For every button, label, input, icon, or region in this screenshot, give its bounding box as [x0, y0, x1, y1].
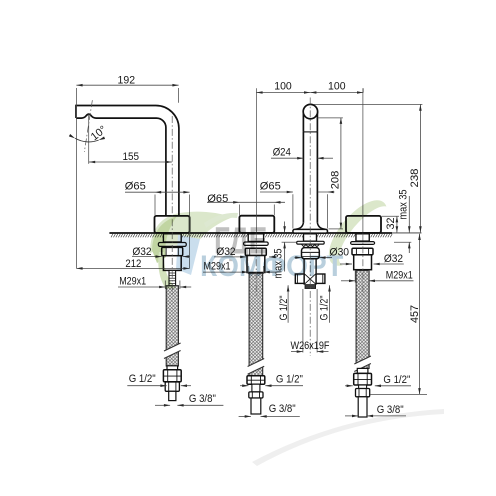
watermark top band	[204, 213, 238, 228]
svg-text:Ø65: Ø65	[207, 193, 228, 205]
dim O32 hose3	[340, 263, 352, 265]
dim 100 left	[256, 92, 310, 94]
dim G3/8 hose3	[345, 415, 358, 417]
svg-text:G 1/2": G 1/2"	[318, 295, 330, 320]
hose braid	[356, 271, 369, 369]
svg-text:Ø32: Ø32	[384, 253, 403, 265]
hose G3/8 tube	[251, 398, 261, 414]
hose washer	[158, 243, 186, 247]
svg-text:M29x1: M29x1	[119, 276, 146, 288]
hose shank	[248, 234, 263, 242]
mixer wave washer	[302, 244, 320, 246]
joystick stem	[302, 132, 304, 223]
svg-text:192: 192	[118, 75, 136, 87]
dim M29x1 hose2	[203, 271, 248, 273]
svg-text:G 1/2": G 1/2"	[129, 373, 156, 385]
svg-text:238: 238	[409, 169, 421, 188]
dim W26x19F	[302, 289, 304, 353]
mixer cross body	[303, 273, 305, 284]
svg-text:212: 212	[125, 258, 141, 270]
svg-text:W26x19F: W26x19F	[291, 340, 330, 352]
svg-text:M29x1: M29x1	[386, 270, 413, 282]
dim O32 hose2	[214, 256, 246, 258]
svg-text:Ø32: Ø32	[132, 246, 151, 258]
mixer body tube	[303, 259, 305, 274]
svg-text:208: 208	[330, 171, 342, 190]
joystick ball	[303, 104, 317, 118]
svg-text:100: 100	[328, 80, 346, 92]
hose G3/8 tube	[358, 397, 367, 417]
svg-text:100: 100	[274, 80, 292, 92]
hose mounting nut	[245, 248, 266, 255]
mixer left port	[295, 274, 304, 283]
dim O65 spout base	[125, 191, 190, 193]
mixer nut O30	[302, 248, 320, 259]
svg-text:G 1/2": G 1/2"	[278, 295, 290, 320]
dim max35 left	[284, 222, 286, 233]
right handle base	[346, 216, 381, 233]
dim O32 hose1	[132, 256, 162, 258]
hose threaded adapter	[169, 270, 176, 285]
hose shank	[163, 234, 181, 242]
hose G3/8 adapter nut	[165, 382, 179, 391]
hose G3/8 adapter nut	[249, 392, 263, 398]
watermark right swoosh	[318, 191, 397, 275]
hose G3/8 tube	[169, 391, 176, 400]
mixer washer	[297, 241, 325, 244]
dim G3/8 hose1	[155, 404, 170, 406]
dim 238	[419, 105, 421, 233]
dim 208	[340, 118, 342, 229]
spout outline	[76, 106, 179, 216]
mixer threaded end W26	[305, 285, 316, 289]
hose G1/2 nut	[354, 373, 372, 385]
hose body	[247, 256, 265, 273]
hose collar	[167, 366, 178, 370]
hose mounting nut	[352, 248, 373, 255]
hose neck	[359, 385, 367, 389]
svg-text:G 1/2": G 1/2"	[276, 373, 303, 385]
dim G1/2 hose3	[345, 385, 353, 387]
left handle base	[239, 216, 274, 233]
dim O65 left handle base	[207, 201, 285, 203]
dim 32 base height	[396, 216, 398, 232]
hose break mark	[248, 359, 265, 375]
dim G1/2 hose1	[127, 385, 166, 387]
dim O24 stem	[271, 157, 303, 159]
hose G3/8 adapter nut	[356, 389, 370, 397]
dim G1/2 hose2	[240, 385, 248, 387]
joystick flange plate	[293, 229, 328, 233]
hose braid	[249, 273, 263, 376]
dim O30 mixer nut	[295, 257, 302, 259]
dim 155	[89, 161, 172, 163]
svg-text:G 3/8": G 3/8"	[189, 393, 216, 405]
svg-text:Ø65: Ø65	[260, 180, 281, 192]
countertop hatch	[111, 234, 392, 237]
svg-text:457: 457	[409, 305, 421, 323]
dim M29x1 hose1	[118, 286, 165, 288]
dim 212	[76, 267, 189, 269]
watermark blue ribbon	[176, 235, 200, 275]
countertop line	[109, 232, 392, 234]
hose shank	[356, 234, 369, 241]
mixer right port	[316, 274, 325, 283]
hose braid	[166, 286, 178, 366]
dim max35 right	[408, 196, 410, 232]
hose body	[163, 256, 181, 271]
spout base	[155, 216, 190, 233]
dim O65 joystick flange	[260, 191, 293, 193]
watermark bottom streak	[252, 409, 444, 466]
joystick sleeve	[302, 112, 304, 132]
joystick flare foot	[295, 223, 325, 230]
dim M29x1 hose3	[341, 280, 355, 282]
svg-text:Ø24: Ø24	[273, 147, 291, 159]
svg-text:КОМФОРТ: КОМФОРТ	[200, 250, 344, 283]
watermark leaf tail	[158, 252, 176, 289]
centerline joystick	[309, 98, 311, 357]
dim 192	[76, 84, 178, 86]
hose washer	[244, 242, 269, 245]
hose G1/2 nut	[247, 376, 265, 384]
hose mounting nut	[162, 247, 183, 255]
leader G1/2 left port	[287, 285, 289, 323]
dim G3/8 hose2	[239, 415, 251, 417]
svg-text:155: 155	[122, 151, 139, 163]
svg-text:max 35: max 35	[397, 190, 409, 220]
hose G1/2 nut	[163, 370, 181, 382]
mixer shank below counter	[304, 234, 317, 241]
angle 10 deg	[88, 114, 90, 164]
svg-text:Ø65: Ø65	[125, 181, 146, 193]
watermark leaf blade	[150, 212, 233, 253]
hose break mark	[354, 356, 371, 372]
dim 457	[419, 234, 421, 394]
hose break mark	[164, 343, 181, 359]
hose body	[354, 255, 372, 270]
centerline right handle hole	[362, 88, 364, 232]
svg-text:G 1/2": G 1/2"	[383, 374, 410, 386]
dim 100 right	[310, 92, 363, 94]
watermark leaf dark arc	[152, 216, 177, 263]
leader G1/2 right port	[329, 285, 331, 323]
hose neck	[252, 384, 260, 392]
hose collar	[357, 368, 368, 373]
svg-text:G 3/8": G 3/8"	[269, 403, 296, 415]
centerline left handle hole	[255, 88, 257, 232]
hose washer	[351, 242, 375, 245]
centerline spout	[171, 116, 173, 295]
